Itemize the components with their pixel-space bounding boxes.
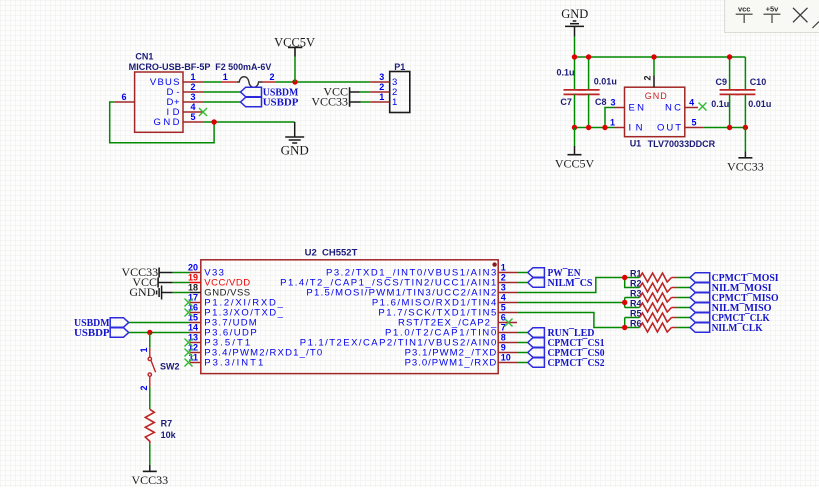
svg-text:1: 1 — [501, 263, 506, 273]
wire D- to USBDM — [203, 91, 241, 93]
wire R2 to NILM_MOSI — [677, 287, 691, 289]
svg-text:3: 3 — [501, 283, 506, 293]
wire C7 top lead — [574, 57, 576, 90]
wire U2 pin9 to CPMCT_CS0 — [517, 352, 528, 354]
junction — [572, 125, 577, 130]
wire R6 to NILM_CLK — [677, 327, 691, 329]
toolbar close X icon — [793, 8, 808, 22]
wire U2 pin7 to RUN_LED — [517, 332, 528, 334]
wire to VCC5V port — [574, 128, 576, 147]
U2 pin 11 stub — [190, 362, 201, 364]
wire C10 top lead — [744, 57, 746, 90]
svg-text:TLV70033DDCR: TLV70033DDCR — [648, 139, 716, 149]
junction — [727, 54, 732, 59]
toolbar overlay card — [725, 0, 819, 33]
wire U2 pin2 to NILM_CS — [517, 282, 528, 284]
power port VCC (P1 pin2) — [350, 87, 360, 97]
wire VCC33 to U2 pin20 — [173, 272, 190, 274]
svg-text:6: 6 — [501, 313, 506, 323]
wire U2 pin1 to PW_EN — [517, 272, 528, 274]
resistor R2 zigzag — [639, 283, 671, 292]
wire C10 bottom lead — [744, 94, 746, 127]
svg-text:3: 3 — [379, 72, 384, 82]
wire VCC to U2 pin19 — [173, 282, 190, 284]
wire to R3 — [625, 297, 640, 299]
svg-text:7: 7 — [501, 323, 506, 333]
net flag NILM_CS — [528, 278, 545, 288]
U2 pin 16 stub — [190, 312, 201, 314]
resistor R1 right lead — [672, 277, 677, 279]
U2 pin 12 stub — [190, 352, 201, 354]
svg-text:GND: GND — [129, 285, 155, 299]
U2 pin 3 stub — [498, 292, 517, 294]
svg-text:2: 2 — [139, 385, 149, 390]
svg-text:0.1u: 0.1u — [557, 68, 575, 78]
svg-text:GND: GND — [561, 7, 588, 21]
CN1 pin 2 D- stub — [183, 91, 203, 93]
U1 pin 5 stub (OUT) — [685, 127, 704, 129]
junction — [586, 125, 591, 130]
connector P1 body — [390, 72, 410, 113]
wire C9 bottom lead — [729, 94, 731, 127]
power port GND (top) — [565, 21, 584, 37]
svg-text:0.01u: 0.01u — [594, 76, 617, 86]
wire CN1 GND pin to ground symbol — [203, 121, 295, 123]
svg-text:VCC33: VCC33 — [131, 473, 168, 487]
wire jog R5/R6 — [624, 318, 626, 328]
wire VCC5V stem — [294, 57, 296, 82]
svg-text:P3.0/PWM1_/RXD: P3.0/PWM1_/RXD — [405, 358, 497, 369]
toolbar vcc power icon — [736, 5, 753, 24]
svg-text:1: 1 — [223, 72, 228, 82]
capacitor C9 plates — [720, 90, 740, 95]
power port VCC33 bottom — [143, 470, 157, 472]
CN1 pin 5 GND stub — [183, 121, 203, 123]
svg-text:USBDP: USBDP — [74, 327, 110, 339]
wire C8 top lead — [588, 57, 590, 90]
resistor R3 right lead — [672, 297, 677, 299]
wire jog to R2 — [625, 278, 640, 288]
wire U2 pin8 to CPMCT_CS1 — [517, 342, 528, 344]
svg-text:C9: C9 — [716, 77, 728, 87]
svg-text:GND: GND — [281, 143, 309, 158]
svg-text:4: 4 — [689, 97, 694, 107]
svg-text:USBDP: USBDP — [263, 97, 299, 109]
net flag USBDM — [241, 87, 262, 97]
U2 pin 2 stub — [498, 282, 517, 284]
svg-text:1: 1 — [379, 92, 384, 102]
no-connect X on U2 left pin — [185, 339, 193, 347]
svg-text:1: 1 — [139, 347, 149, 352]
wire CN1 pin6 shield loop to GND net — [110, 102, 214, 143]
wire EN jog — [605, 108, 615, 128]
CN1 pin 1 VBUS stub — [183, 81, 203, 83]
power port VCC33 right — [738, 157, 752, 159]
wire to R5 — [625, 317, 640, 319]
wire USBDP to U2 pin14 — [129, 332, 190, 334]
svg-text:3: 3 — [610, 97, 615, 107]
wire VBUS to fuse F2 — [203, 81, 222, 83]
svg-text:R7: R7 — [161, 419, 173, 429]
power port VCC33 (U2 pin20) — [159, 268, 173, 278]
wire R7 to VCC33 port — [149, 444, 151, 465]
U2 pin 10 stub — [498, 362, 517, 364]
svg-text:EN: EN — [629, 103, 645, 114]
svg-text:VCC33: VCC33 — [727, 159, 764, 173]
no-connect X on CN1 ID pin — [199, 108, 207, 116]
svg-text:P1: P1 — [394, 62, 405, 72]
U2 pin 18 stub — [190, 292, 201, 294]
net flag CPMCT_MOSI — [690, 273, 710, 283]
svg-text:9: 9 — [501, 343, 506, 353]
wire R4 to NILM_MISO — [677, 307, 691, 309]
ground GND (CN1) symbol — [285, 122, 304, 143]
wire USBDP to SW2 — [149, 333, 151, 348]
svg-text:C8: C8 — [595, 97, 607, 107]
resistor R6 right lead — [672, 327, 677, 329]
U1 pin 4 stub (NC) — [685, 107, 698, 109]
no-connect X on U2 left pin — [185, 349, 193, 357]
wire GND top rail — [575, 56, 746, 58]
svg-text:F2 500mA-6V: F2 500mA-6V — [215, 62, 271, 72]
svg-text:5: 5 — [691, 117, 696, 127]
svg-text:3: 3 — [190, 92, 195, 102]
svg-text:+5v: +5v — [766, 5, 780, 14]
fuse F2 body — [237, 77, 263, 88]
wire VCC33 bottom rail right — [704, 127, 746, 129]
net flag CPMCT_MISO — [690, 293, 710, 303]
CN1 pin 4 ID stub — [183, 111, 203, 113]
MCU U2 CH552T body — [201, 260, 498, 374]
svg-text:VBUS: VBUS — [150, 77, 180, 88]
svg-text:MICRO-USB-BF-5P: MICRO-USB-BF-5P — [129, 62, 211, 72]
power port VCC33 (P1 pin1) — [350, 97, 361, 107]
no-connect X on U2 left pin — [185, 309, 193, 317]
svg-text:4: 4 — [501, 293, 506, 303]
svg-text:OUT: OUT — [657, 123, 681, 134]
CN1 pin 6 stub — [114, 101, 134, 103]
no-connect X on U2 left pin — [185, 299, 193, 307]
wire R1 to CPMCT_MOSI — [677, 277, 691, 279]
U2 pin 20 stub — [190, 272, 201, 274]
power port VCC5V bottom — [568, 154, 582, 156]
wire D+ to USBDP — [203, 101, 241, 103]
svg-text:P3.3/INT1: P3.3/INT1 — [204, 358, 263, 369]
svg-text:VCC5V: VCC5V — [274, 35, 315, 49]
wire C9 top lead — [729, 57, 731, 90]
svg-text:10: 10 — [501, 353, 511, 363]
svg-text:8: 8 — [501, 333, 506, 343]
no-connect X on U2 pin 6 — [505, 319, 513, 327]
op-amp U1 TLV70033DDCR body — [625, 87, 685, 137]
wire to R1 — [625, 277, 640, 279]
svg-text:4: 4 — [190, 102, 195, 112]
svg-text:GND: GND — [645, 91, 668, 101]
svg-text:U2 CH552T: U2 CH552T — [305, 247, 358, 257]
wire R5 to CPMCT_CLK — [677, 317, 691, 319]
resistor R3 zigzag — [639, 293, 671, 302]
svg-text:14: 14 — [188, 323, 198, 333]
wire jog R3/R4 — [624, 298, 626, 308]
wire VCC33 to P1 pin1 — [361, 101, 371, 103]
U2 pin 14 stub — [190, 332, 201, 334]
svg-text:10k: 10k — [161, 430, 177, 440]
svg-text:NILM¯CS: NILM¯CS — [548, 277, 593, 289]
capacitor C7 plates — [564, 90, 586, 95]
wire R3 to CPMCT_MISO — [677, 297, 691, 299]
capacitor C10 plates — [735, 90, 755, 95]
net flag NILM_CLK — [690, 323, 710, 333]
svg-text:vcc: vcc — [738, 5, 751, 14]
resistor R6 zigzag — [639, 323, 671, 332]
wire SW2 to R7 — [149, 387, 151, 409]
junction — [727, 125, 732, 130]
wire VCC5V bottom rail left — [575, 127, 615, 129]
svg-text:2: 2 — [643, 75, 653, 80]
U1 pin 1 stub (IN) — [615, 127, 625, 129]
wire U2 pin3 to R1/R2 — [517, 278, 625, 293]
svg-text:20: 20 — [188, 263, 198, 273]
U2 pin 13 stub — [190, 342, 201, 344]
U1 pin 2 stub (GND) — [653, 76, 655, 88]
resistor R1 zigzag — [639, 273, 671, 282]
U2 pin 17 stub — [190, 302, 201, 304]
wire USBDM to U2 pin15 — [129, 322, 190, 324]
net flag NILM_MISO — [690, 303, 710, 313]
P1 pin 1 stub — [370, 101, 390, 103]
resistor R2 right lead — [672, 287, 677, 289]
P1 pin 3 stub — [370, 81, 390, 83]
wire U2 pin4 to R3/R4 — [517, 302, 625, 304]
net flag USBDM (U2) — [110, 318, 129, 328]
svg-text:1: 1 — [190, 72, 195, 82]
P1 pin 2 stub — [370, 91, 390, 93]
resistor R5 zigzag — [639, 313, 671, 322]
net flag NILM_MOSI — [690, 283, 710, 293]
junction — [651, 54, 656, 59]
svg-text:GND: GND — [154, 117, 180, 128]
junction — [586, 54, 591, 59]
U2 pin 15 stub — [190, 322, 201, 324]
wire VCC to P1 pin2 — [360, 91, 371, 93]
no-connect X on U2 left pin — [185, 359, 193, 367]
junction R5/R6 — [622, 325, 627, 330]
resistor R4 right lead — [672, 307, 677, 309]
wire GND stem to rail — [574, 37, 576, 57]
toolbar +5v power icon — [764, 5, 781, 24]
U2 pin 7 stub — [498, 332, 517, 334]
U2 pin 8 stub — [498, 342, 517, 344]
junction R3/R4 — [622, 300, 627, 305]
wire VCC5V net to P1 pin3 — [276, 81, 371, 83]
net flag USBDP (U2) — [110, 328, 129, 338]
wire GND to U2 pin18 — [173, 292, 190, 294]
svg-text:2: 2 — [190, 82, 195, 92]
svg-text:VCC33: VCC33 — [311, 95, 348, 109]
no-connect X on U1 NC — [699, 103, 707, 111]
junction — [743, 125, 748, 130]
wire U2 pin5 to R5/R6 — [517, 313, 625, 328]
wire C8 bottom lead — [588, 94, 590, 127]
net flag CPMCT_CS0 — [528, 348, 545, 358]
fuse F2 pin2 lead — [263, 81, 276, 83]
U2 pin 19 stub — [190, 282, 201, 284]
U2 pin1 marker dot — [492, 262, 496, 266]
junction VCC5V — [292, 79, 297, 84]
power port VCC33 (bottom) — [149, 465, 151, 471]
fuse F2 pin1 lead — [222, 81, 237, 83]
svg-text:18: 18 — [188, 283, 198, 293]
svg-text:C10: C10 — [750, 77, 767, 87]
svg-text:VCC5V: VCC5V — [555, 156, 595, 170]
net flag USBDP — [241, 97, 262, 107]
net flag CPMCT_CS1 — [528, 338, 545, 348]
capacitor C8 plates — [578, 90, 600, 95]
toolbar partial icon at edge — [813, 22, 819, 29]
switch SW2 — [148, 348, 156, 387]
junction — [572, 54, 577, 59]
U2 pin 5 stub — [498, 312, 517, 314]
svg-text:2: 2 — [269, 72, 274, 82]
wire to R4 — [625, 307, 640, 309]
svg-text:U1: U1 — [630, 139, 642, 149]
svg-text:C7: C7 — [560, 97, 572, 107]
svg-text:IN: IN — [629, 123, 643, 134]
svg-text:CN1: CN1 — [135, 52, 153, 62]
svg-text:2: 2 — [379, 82, 384, 92]
resistor R7 zigzag — [145, 409, 154, 444]
svg-text:NILM¯CLK: NILM¯CLK — [712, 322, 763, 334]
wire to VCC33 port — [744, 128, 746, 152]
U2 pin 6 stub — [498, 322, 517, 324]
junction — [602, 125, 607, 130]
svg-text:0.1u: 0.1u — [711, 99, 729, 109]
junction CN1 GND — [211, 119, 216, 124]
svg-text:1: 1 — [610, 117, 615, 127]
wire to R6 — [625, 327, 640, 329]
U2 pin 9 stub — [498, 352, 517, 354]
svg-text:19: 19 — [188, 273, 198, 283]
junction R1/R2 — [622, 275, 627, 280]
CN1 pin 3 D+ stub — [183, 101, 203, 103]
junction USBDP/SW2 — [147, 330, 152, 335]
wire U2 pin10 to CPMCT_CS2 — [517, 362, 528, 364]
resistor R5 right lead — [672, 317, 677, 319]
svg-text:0.01u: 0.01u — [748, 99, 771, 109]
net flag CPMCT_CS2 — [528, 358, 545, 368]
svg-text:SW2: SW2 — [160, 361, 180, 371]
net flag PW_EN — [528, 268, 545, 278]
wire U1 pin2 GND riser — [653, 57, 655, 76]
ground GND (U2 pin18) — [157, 286, 173, 300]
svg-text:CPMCT¯CS2: CPMCT¯CS2 — [548, 357, 605, 369]
resistor R4 zigzag — [639, 303, 671, 312]
U2 pin 4 stub — [498, 302, 517, 304]
svg-text:1: 1 — [392, 97, 397, 108]
connector CN1 MICRO-USB-BF-5P body — [135, 72, 183, 132]
U2 pin 1 stub — [498, 272, 517, 274]
wire C7 bottom lead — [574, 94, 576, 127]
svg-text:2: 2 — [501, 273, 506, 283]
svg-text:6: 6 — [121, 92, 126, 102]
U1 pin 3 stub (EN) — [615, 107, 625, 109]
svg-text:5: 5 — [190, 112, 195, 122]
net flag CPMCT_CLK — [690, 313, 710, 323]
net flag RUN_LED — [528, 328, 545, 338]
svg-text:5: 5 — [501, 303, 506, 313]
power port VCC (U2 pin19) — [158, 278, 173, 288]
